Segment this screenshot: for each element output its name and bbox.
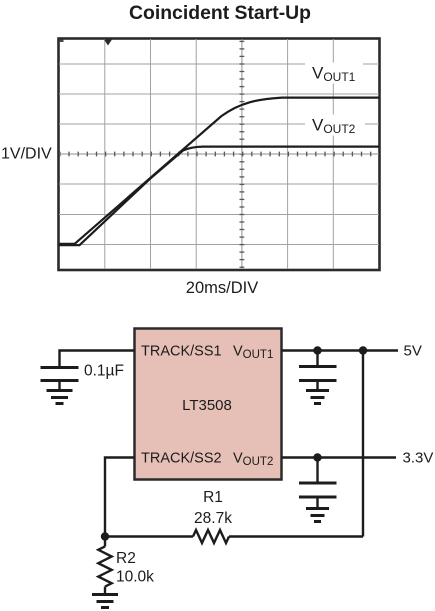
svg-text:LT3508: LT3508 [182,397,232,414]
svg-text:10.0k: 10.0k [116,569,154,586]
node junction dot [313,346,321,354]
wire TRACK/SS1 to C1 [60,351,135,367]
svg-text:TRACK/SS1: TRACK/SS1 [141,344,222,360]
svg-text:Coincident Start-Up: Coincident Start-Up [129,2,311,24]
scope center horizontal axis with ticks [59,153,379,155]
svg-text:TRACK/SS2: TRACK/SS2 [141,451,222,467]
capacitor C2 [316,351,318,366]
ground G3 [306,509,329,522]
scope graticule frame [59,39,380,271]
svg-text:0.1µF: 0.1µF [84,363,124,380]
svg-text:R2: R2 [116,550,136,567]
waveform VOUT2 trace [59,147,379,246]
node A junction dot [101,532,109,540]
svg-text:28.7k: 28.7k [194,510,232,527]
trigger marker [104,40,112,46]
label VOUT2 (scope) [305,115,365,136]
ground G1 [47,391,73,404]
capacitor C3 [316,458,318,483]
resistor R2 10.0k [98,546,111,586]
capacitor C1 0.1uF [41,368,79,381]
svg-text:5V: 5V [404,343,422,360]
ground G4 [92,595,118,608]
wire TRACK/SS2 to node A [105,458,135,535]
scope grid vertical lines [105,39,333,269]
svg-text:1V/DIV: 1V/DIV [1,146,52,163]
corner mark [60,40,64,43]
wire 5V to R1 right side [362,351,364,537]
wire VOUT2 3.3V rail [282,456,397,458]
waveform VOUT1 trace [59,98,379,244]
op-amp U1 LT3508 body [135,329,282,480]
scope center vertical axis with ticks [241,39,243,269]
scope grid horizontal lines [59,64,379,245]
svg-text:R1: R1 [203,489,223,506]
ground G2 [306,391,329,404]
wire node A to R1 [105,535,193,537]
svg-text:20ms/DIV: 20ms/DIV [186,279,258,297]
node junction dot [359,346,367,354]
resistor R1 28.7k [193,530,229,543]
wire VOUT1 5V rail [282,349,399,351]
wire R1 to right rail [229,535,363,537]
wire node A down to R2 [104,537,106,547]
node junction dot [313,453,321,461]
svg-text:3.3V: 3.3V [403,450,434,467]
label VOUT1 (scope) [305,63,363,84]
